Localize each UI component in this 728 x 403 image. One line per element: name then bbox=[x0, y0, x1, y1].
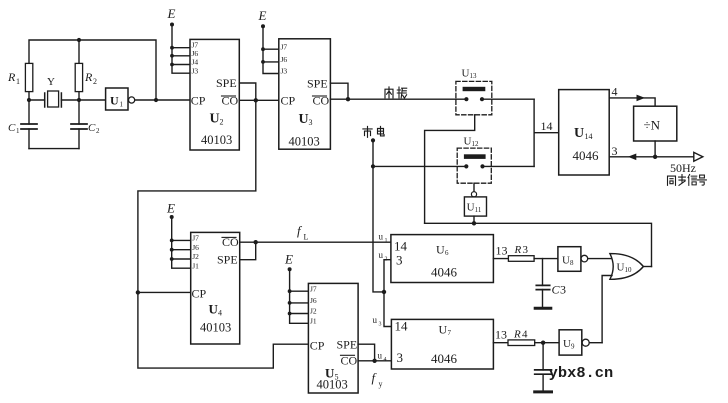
svg-text:C: C bbox=[8, 122, 16, 134]
svg-text:u: u bbox=[379, 250, 384, 260]
svg-text:J6: J6 bbox=[281, 55, 288, 64]
label 内振 bbox=[385, 87, 393, 98]
counter U2 40103 bbox=[190, 39, 239, 150]
resistor R3 bbox=[508, 256, 534, 262]
svg-text:SPE: SPE bbox=[216, 76, 237, 90]
svg-text:f: f bbox=[297, 223, 303, 238]
capacitor C1 bbox=[28, 100, 30, 149]
resistor R4 bbox=[508, 340, 535, 346]
svg-text:J6: J6 bbox=[310, 296, 317, 305]
wire pin14 rail to U14 bbox=[534, 99, 559, 166]
svg-text:SPE: SPE bbox=[217, 253, 238, 267]
counter U3 40103 bbox=[279, 39, 331, 149]
svg-text:÷N: ÷N bbox=[644, 118, 661, 133]
svg-text:u: u bbox=[379, 232, 384, 242]
svg-text:13: 13 bbox=[470, 72, 478, 80]
svg-text:4: 4 bbox=[612, 85, 618, 99]
svg-text:ybx8.cn: ybx8.cn bbox=[549, 365, 614, 382]
svg-text:J2: J2 bbox=[310, 307, 317, 316]
svg-text:J3: J3 bbox=[281, 67, 288, 76]
crystal Y bbox=[45, 93, 62, 107]
wire E to U4 J pins bbox=[172, 217, 191, 268]
svg-text:L: L bbox=[304, 233, 309, 242]
resistor R2 bbox=[75, 63, 82, 91]
capacitor C4 bbox=[542, 343, 544, 391]
svg-text:U: U bbox=[563, 338, 571, 350]
wire mains branch to U6 pin3 and U7 pin14 bbox=[384, 260, 391, 327]
node R2 top junction bbox=[77, 38, 81, 42]
svg-text:U: U bbox=[439, 323, 448, 337]
wire U14 pin4 to divider bbox=[609, 98, 655, 106]
capacitor C3 bbox=[542, 259, 544, 307]
wire U2 CO to U3 CP bbox=[239, 99, 278, 101]
wire R3 to U8 bbox=[534, 258, 558, 260]
svg-text:U: U bbox=[436, 243, 445, 257]
wire oscillator top feedback rail bbox=[29, 40, 156, 100]
arrow 50Hz output (hollow) bbox=[694, 152, 703, 161]
arrow on pin4 wire bbox=[637, 95, 646, 102]
svg-text:4046: 4046 bbox=[431, 265, 458, 280]
resistor R1 bbox=[25, 63, 32, 91]
svg-text:J1: J1 bbox=[310, 317, 317, 326]
svg-text:J1: J1 bbox=[192, 261, 199, 270]
svg-text:U: U bbox=[574, 126, 584, 141]
wire U3 CO output (internal osc) to U13 bbox=[330, 98, 466, 100]
node B bbox=[77, 98, 81, 102]
svg-text:11: 11 bbox=[475, 206, 482, 214]
svg-text:2: 2 bbox=[93, 77, 97, 86]
wire R4 to U9 bbox=[535, 342, 559, 344]
or-gate U10 bbox=[610, 254, 644, 280]
svg-text:u: u bbox=[373, 315, 378, 325]
svg-text:14: 14 bbox=[394, 239, 408, 254]
svg-text:E: E bbox=[284, 252, 293, 267]
svg-text:U: U bbox=[562, 255, 570, 267]
svg-text:R: R bbox=[514, 244, 522, 256]
svg-text:f: f bbox=[372, 370, 378, 385]
ground (C3) bbox=[535, 307, 551, 310]
wire U11 input from control line bbox=[473, 216, 475, 223]
wire divider output to pin3 line bbox=[654, 141, 656, 157]
svg-text:3: 3 bbox=[397, 350, 404, 365]
svg-text:J6: J6 bbox=[192, 49, 199, 58]
node R4/C4 junction bbox=[541, 341, 545, 345]
svg-text:SPE: SPE bbox=[307, 77, 328, 91]
svg-text:CP: CP bbox=[191, 94, 206, 108]
node U4 CP junction bbox=[136, 290, 140, 294]
counter U5 40103 bbox=[308, 283, 358, 393]
wire U12 output to pin14 rail bbox=[483, 165, 535, 167]
svg-text:U: U bbox=[110, 94, 119, 108]
svg-text:14: 14 bbox=[541, 119, 553, 133]
svg-text:3: 3 bbox=[560, 283, 566, 297]
svg-text:13: 13 bbox=[495, 328, 507, 342]
svg-text:14: 14 bbox=[395, 319, 409, 334]
svg-text:50Hz: 50Hz bbox=[670, 161, 696, 175]
wire U9 to U10 bbox=[589, 342, 602, 344]
svg-text:U: U bbox=[617, 262, 625, 274]
inverter U8 bbox=[558, 247, 581, 272]
svg-text:40103: 40103 bbox=[289, 134, 320, 148]
svg-text:3: 3 bbox=[523, 244, 529, 256]
svg-text:10: 10 bbox=[625, 266, 633, 274]
svg-text:3: 3 bbox=[396, 253, 403, 268]
svg-text:CP: CP bbox=[310, 339, 325, 353]
node mains to U12 junction bbox=[371, 164, 375, 168]
svg-text:E: E bbox=[167, 6, 176, 21]
wire oscillator node row bbox=[29, 99, 106, 101]
counter U4 40103 bbox=[191, 232, 240, 344]
svg-text:y: y bbox=[379, 380, 383, 389]
wire U2 SPE loop to CO bbox=[239, 83, 256, 100]
PLL U6 4046 bbox=[391, 235, 494, 283]
svg-text:40103: 40103 bbox=[200, 321, 231, 335]
svg-text:U: U bbox=[462, 68, 470, 80]
svg-text:12: 12 bbox=[472, 140, 480, 148]
inverter U11 bbox=[471, 192, 476, 197]
svg-text:CP: CP bbox=[281, 94, 296, 108]
wire U6 pin13 to R3 bbox=[493, 258, 508, 260]
wire E to U2 J pins bbox=[172, 25, 190, 74]
node U4 CO junction bbox=[254, 240, 258, 244]
arrow into U14 pin3 bbox=[628, 154, 637, 161]
svg-text:2: 2 bbox=[385, 257, 388, 263]
wire U2 CO down to U4 CP bbox=[138, 100, 309, 368]
svg-text:40103: 40103 bbox=[201, 133, 232, 147]
svg-text:Y: Y bbox=[47, 76, 55, 88]
wire U12 control to U11 bubble bbox=[473, 183, 475, 192]
svg-text:U: U bbox=[299, 112, 309, 127]
divider ÷N bbox=[634, 106, 677, 141]
wire U8 to U10 bbox=[588, 258, 612, 260]
wire U7 pin13 to R4 bbox=[493, 342, 508, 344]
svg-text:2: 2 bbox=[220, 118, 224, 127]
svg-text:4046: 4046 bbox=[431, 351, 458, 366]
wire switch control line from U10 bbox=[425, 223, 652, 266]
svg-text:J7: J7 bbox=[192, 234, 199, 243]
svg-text:CP: CP bbox=[192, 287, 207, 301]
svg-text:4: 4 bbox=[522, 329, 528, 341]
wire U13 control bbox=[425, 115, 475, 224]
svg-text:R: R bbox=[7, 70, 16, 84]
svg-text:2: 2 bbox=[96, 127, 100, 135]
svg-text:3: 3 bbox=[309, 118, 313, 127]
svg-text:13: 13 bbox=[496, 244, 508, 258]
svg-text:1: 1 bbox=[385, 238, 388, 244]
wire U4 CO to U6 pin14 bbox=[240, 241, 391, 243]
svg-text:E: E bbox=[166, 201, 175, 216]
wire E to U5 J pins bbox=[290, 269, 309, 323]
svg-text:J4: J4 bbox=[192, 58, 199, 67]
wire U5 SPE loop to CO bbox=[358, 344, 375, 361]
PLL U7 4046 bbox=[391, 319, 493, 369]
svg-text:U: U bbox=[210, 112, 220, 127]
wire U1 output to U2 CP bbox=[135, 99, 190, 101]
PLL U14 4046 bbox=[559, 90, 610, 175]
svg-text:7: 7 bbox=[448, 329, 452, 337]
wire U4 SPE loop to CO bbox=[240, 242, 256, 260]
svg-text:SPE: SPE bbox=[337, 338, 358, 352]
ground (C4) bbox=[535, 390, 552, 393]
wire U5 CO to U7 pin3 bbox=[358, 360, 391, 362]
wire U14 pin3 / 50Hz output bbox=[609, 156, 695, 158]
svg-text:4046: 4046 bbox=[573, 148, 600, 163]
capacitor C2 bbox=[78, 100, 80, 149]
svg-text:E: E bbox=[258, 8, 267, 23]
wire U10 lower input from U9 bbox=[602, 276, 612, 343]
inverter U9 bbox=[559, 330, 582, 355]
wire U3 SPE loop to CO bbox=[330, 83, 348, 99]
label 同步信号 bbox=[668, 176, 676, 185]
svg-text:4: 4 bbox=[218, 309, 222, 318]
svg-text:R: R bbox=[84, 70, 93, 84]
svg-text:9: 9 bbox=[571, 343, 575, 351]
node U2 CO junction bbox=[254, 98, 258, 102]
svg-text:8: 8 bbox=[570, 259, 574, 267]
node A bbox=[27, 98, 31, 102]
node U5 CO junction bbox=[372, 359, 376, 363]
svg-text:J6: J6 bbox=[192, 243, 199, 252]
svg-text:40103: 40103 bbox=[317, 378, 348, 392]
svg-text:14: 14 bbox=[585, 132, 593, 141]
svg-text:J7: J7 bbox=[281, 42, 288, 51]
svg-text:J7: J7 bbox=[310, 284, 317, 293]
wire U10 output bbox=[643, 266, 651, 268]
node mains input bbox=[371, 138, 375, 142]
wire E to U3 J pins bbox=[263, 26, 279, 73]
svg-text:R: R bbox=[513, 329, 521, 341]
svg-text:1: 1 bbox=[16, 77, 20, 86]
node U11 control junction bbox=[472, 221, 476, 225]
label 市电 bbox=[363, 127, 372, 138]
wire mains line down bbox=[373, 140, 466, 292]
op-amp U1 inverter bbox=[106, 88, 128, 110]
svg-text:u: u bbox=[378, 351, 383, 361]
wire U13 output to pin14 rail bbox=[482, 98, 534, 100]
svg-text:J3: J3 bbox=[192, 66, 199, 75]
node U3 CO junction bbox=[346, 97, 350, 101]
svg-text:6: 6 bbox=[445, 249, 449, 257]
wire oscillator bottom bbox=[29, 148, 79, 150]
svg-text:3: 3 bbox=[612, 144, 618, 158]
svg-text:1: 1 bbox=[16, 127, 20, 135]
svg-text:J2: J2 bbox=[192, 252, 199, 261]
svg-text:1: 1 bbox=[120, 101, 124, 109]
svg-text:U: U bbox=[467, 202, 475, 214]
svg-text:3: 3 bbox=[379, 322, 382, 328]
svg-text:U: U bbox=[209, 302, 219, 317]
svg-text:C: C bbox=[88, 122, 96, 134]
svg-text:U: U bbox=[464, 136, 472, 148]
svg-text:4: 4 bbox=[384, 357, 387, 363]
node feedback junction bbox=[154, 98, 158, 102]
